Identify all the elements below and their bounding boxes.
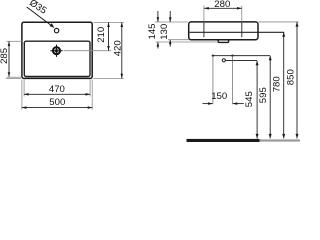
svg-text:470: 470 xyxy=(49,84,65,95)
svg-text:280: 280 xyxy=(214,0,230,10)
svg-text:150: 150 xyxy=(211,91,227,102)
svg-text:420: 420 xyxy=(113,40,124,56)
svg-text:850: 850 xyxy=(286,69,297,85)
svg-text:145: 145 xyxy=(147,23,158,39)
svg-text:210: 210 xyxy=(96,27,107,43)
svg-text:130: 130 xyxy=(159,24,170,40)
svg-text:545: 545 xyxy=(244,91,255,107)
svg-text:285: 285 xyxy=(0,48,10,64)
svg-text:500: 500 xyxy=(49,97,65,108)
svg-text:595: 595 xyxy=(258,87,269,103)
svg-text:780: 780 xyxy=(271,76,282,92)
